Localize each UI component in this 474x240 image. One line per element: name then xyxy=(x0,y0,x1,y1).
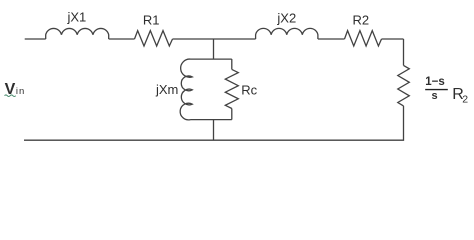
svg-text:in: in xyxy=(16,86,25,97)
svg-text:s: s xyxy=(431,90,437,102)
svg-text:R1: R1 xyxy=(143,13,160,28)
svg-text:1−s: 1−s xyxy=(425,76,445,88)
svg-text:2: 2 xyxy=(462,93,468,105)
svg-text:jX2: jX2 xyxy=(276,10,296,25)
svg-text:V: V xyxy=(5,81,16,98)
svg-text:jX1: jX1 xyxy=(67,9,87,24)
svg-text:R2: R2 xyxy=(352,13,369,28)
svg-text:Rc: Rc xyxy=(241,82,257,97)
svg-text:jXm: jXm xyxy=(155,82,178,97)
